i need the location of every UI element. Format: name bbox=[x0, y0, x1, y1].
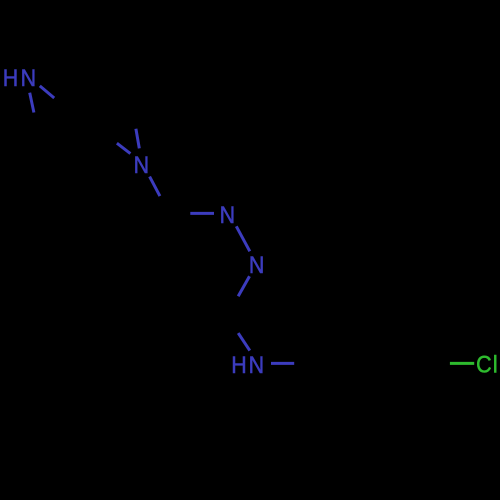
svg-text:H: H bbox=[231, 352, 246, 378]
svg-text:N: N bbox=[220, 202, 235, 228]
svg-text:H: H bbox=[3, 65, 18, 91]
svg-text:N: N bbox=[134, 152, 149, 178]
svg-text:l: l bbox=[493, 352, 498, 378]
svg-text:C: C bbox=[476, 352, 491, 378]
svg-text:N: N bbox=[249, 352, 264, 378]
svg-text:N: N bbox=[21, 65, 36, 91]
svg-text:N: N bbox=[249, 252, 264, 278]
